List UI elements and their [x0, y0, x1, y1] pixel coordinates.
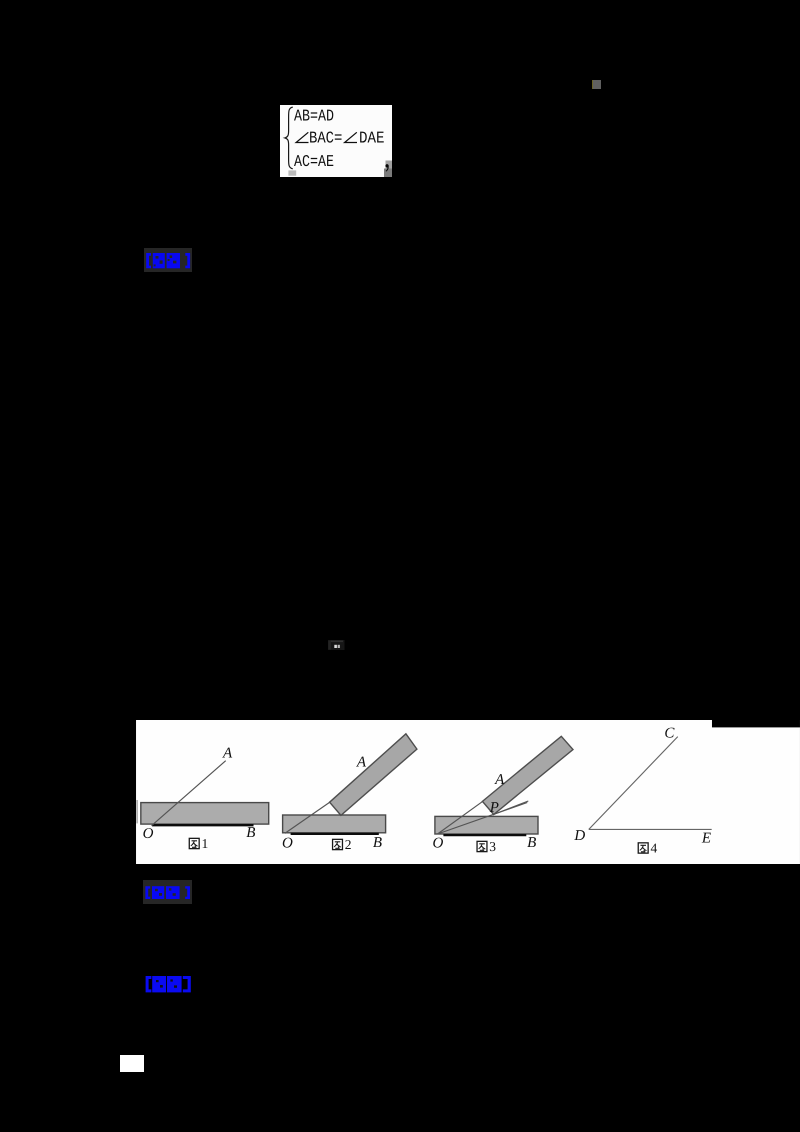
ray OA fig2	[285, 802, 331, 834]
svg-text:D: D	[573, 828, 585, 844]
blue highlighted label 2	[143, 880, 193, 905]
ray DE fig4	[589, 828, 712, 830]
light gray smudge bottom-left	[288, 170, 296, 175]
caption fig1	[189, 838, 199, 848]
pencil fig3	[482, 736, 573, 814]
gray smudge square with comma, bottom-right	[386, 160, 393, 168]
svg-text:DAE: DAE	[359, 128, 385, 147]
svg-text:P: P	[489, 800, 499, 816]
svg-text:B: B	[246, 825, 255, 841]
white page number box bottom left	[120, 1055, 144, 1071]
svg-text:O: O	[433, 836, 444, 852]
svg-text:BAC=: BAC=	[309, 128, 342, 147]
black base line fig3	[443, 834, 526, 836]
caption fig3	[477, 841, 487, 851]
ruler rect fig3	[435, 816, 538, 834]
blue highlighted label 3	[144, 975, 192, 994]
white panel background	[136, 720, 800, 864]
svg-text:3: 3	[489, 839, 496, 854]
svg-text:E: E	[701, 830, 711, 846]
left curly brace	[285, 107, 293, 169]
ruler rect fig1	[141, 803, 269, 824]
svg-text:B: B	[527, 835, 536, 851]
svg-text:B: B	[373, 835, 382, 851]
blue highlighted label 1	[144, 248, 192, 273]
svg-text:AB=AD: AB=AD	[294, 106, 334, 125]
faint small mark mid page	[328, 640, 345, 651]
pencil fig2	[330, 734, 417, 816]
white background of equation box	[280, 105, 392, 177]
svg-text:2: 2	[345, 837, 352, 852]
caption fig2	[333, 839, 343, 849]
svg-text:AC=AE: AC=AE	[294, 152, 334, 171]
ruler sliver at panel edge	[136, 800, 138, 823]
equation line 2: angle BAC = angle DAE	[296, 132, 308, 142]
gray square marker top right	[592, 80, 601, 89]
black base line fig1	[152, 824, 253, 826]
svg-text:1: 1	[202, 836, 209, 851]
black base line fig2	[291, 833, 379, 835]
svg-text:C: C	[664, 726, 675, 742]
ray DC fig4	[589, 737, 678, 830]
equation system box	[280, 105, 392, 177]
caption fig4	[638, 843, 648, 853]
figure panel	[136, 720, 800, 864]
svg-text:O: O	[282, 836, 293, 852]
short line from P fig3	[493, 801, 528, 814]
comma	[385, 164, 388, 172]
ruler rect fig2	[283, 815, 386, 833]
svg-text:O: O	[143, 826, 154, 842]
svg-text:A: A	[222, 745, 233, 761]
black notch top-right	[712, 720, 800, 727]
ray O through P fig3	[438, 802, 528, 833]
svg-text:A: A	[356, 755, 367, 771]
ray OA fig3	[438, 801, 484, 834]
svg-text:A: A	[494, 772, 505, 788]
svg-text:4: 4	[650, 840, 657, 855]
ray OA fig1	[152, 761, 226, 826]
